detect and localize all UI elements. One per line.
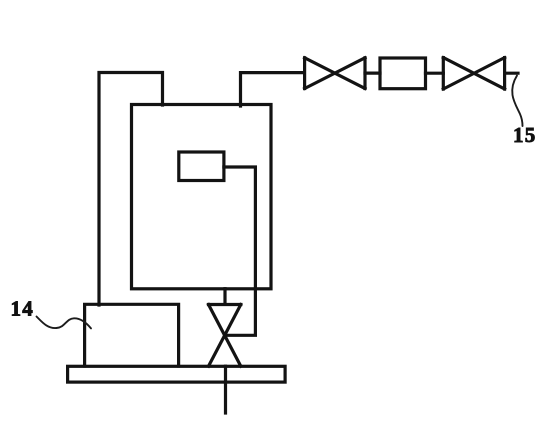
base plate — [68, 366, 286, 382]
bottom valve top end bar — [209, 303, 241, 306]
wire drain pipe below base plate — [224, 366, 227, 413]
wire left inverted-U pipe from box 14 up and into vessel top — [99, 73, 163, 306]
svg-text:14: 14 — [11, 297, 35, 321]
bottom valve diagonal TR-BL — [209, 305, 241, 367]
valve V2 right end bar — [503, 58, 506, 89]
leader line for label 15 — [512, 76, 522, 127]
valve V1 diagonal BL-TR — [305, 58, 365, 89]
box 14 (pump unit) — [85, 304, 179, 366]
leader line for label 14 — [37, 317, 92, 329]
valve V1 diagonal TL-BR — [305, 58, 365, 89]
wire valve V1 to device — [365, 71, 380, 74]
wire outlet stub right of valve V2 — [505, 72, 518, 75]
valve V2 diagonal TL-BR — [443, 58, 504, 89]
valve V2 left end bar — [442, 58, 445, 89]
bottom valve diagonal TL-BR — [209, 305, 241, 367]
wire vessel top to valve V1 — [241, 73, 304, 106]
inner box (sensor) — [179, 152, 224, 181]
valve V2 diagonal BL-TR — [443, 58, 504, 89]
wire from inner box to bottom valve pinch — [224, 167, 256, 335]
wire stem vessel bottom to bottom valve — [223, 289, 226, 304]
vessel (main tank) — [132, 105, 272, 289]
svg-text:15: 15 — [513, 123, 537, 147]
device rectangle (flow element) — [380, 58, 426, 89]
wire device to valve V2 — [426, 72, 444, 75]
valve V1 left end bar — [303, 58, 306, 89]
valve V1 right end bar — [363, 58, 366, 89]
